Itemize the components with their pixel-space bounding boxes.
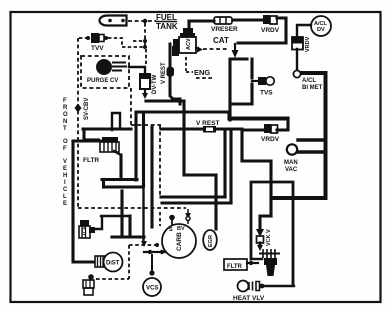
- DIST: [104, 253, 123, 272]
- svg-text:H: H: [63, 173, 67, 179]
- V REST inline on vertical: [167, 67, 175, 77]
- canister: [100, 16, 127, 26]
- svg-text:CARB: CARB: [176, 232, 183, 251]
- wire trunk mid x122: [120, 191, 123, 237]
- svg-text:V REST: V REST: [196, 120, 220, 127]
- wire A/CL BI MET riser: [272, 73, 326, 198]
- wire heat vlv horizontal: [264, 280, 294, 286]
- wire VRDV3 to A/CL DV: [297, 25, 311, 69]
- EGR: [203, 230, 217, 250]
- wire dashed vertical center to carb area: [159, 125, 161, 195]
- wire staircase lower: [104, 185, 143, 188]
- FLTR air filter: [102, 137, 118, 142]
- wire carb S feed spindle: [142, 186, 144, 240]
- TVS: [258, 77, 266, 85]
- wire MAN VAC lower line: [298, 150, 324, 153]
- svg-text:E: E: [63, 166, 67, 172]
- V RESTRICTOR inline: [203, 126, 216, 133]
- node dashed line dot: [155, 243, 159, 247]
- svg-text:N: N: [63, 119, 67, 125]
- wire DV-TW line to EGR stub: [146, 101, 216, 175]
- wire TVV right dashed: [108, 38, 122, 45]
- svg-text:O: O: [63, 112, 68, 118]
- svg-text:ACV: ACV: [186, 38, 192, 50]
- A/CL DV circle: [311, 16, 331, 36]
- wire MAN VAC top feed: [298, 138, 324, 141]
- wire dashed arrow into carb port V: [187, 209, 189, 214]
- wire dashed horizontal to carb V port: [78, 207, 186, 209]
- wire vertical x144: [142, 113, 145, 186]
- wire dashed under ENG: [196, 77, 213, 79]
- wire vertical x152: [150, 127, 153, 227]
- VRESER: [214, 17, 232, 24]
- purge CV: [96, 59, 112, 75]
- wire VRDV right to TVS block arrow: [238, 18, 286, 43]
- wire fuel vapor line ACV top to VRDV: [189, 21, 214, 29]
- wire dashed ACV to ENG: [186, 57, 193, 72]
- wire TCV riser: [95, 216, 129, 229]
- wire dashed EGR line mid: [131, 124, 161, 126]
- wire riser x231: [229, 131, 232, 203]
- heat control valve assy: [259, 253, 280, 255]
- wire dashed down to VCV: [96, 245, 129, 279]
- wire block bottom to VRDV2 loop: [231, 118, 288, 129]
- wire FLTR trunk vertical: [119, 155, 122, 178]
- wire dashed ACV arrow to CAT: [203, 48, 227, 50]
- svg-text:V REST: V REST: [161, 62, 167, 84]
- svg-text:TVS: TVS: [260, 90, 273, 97]
- carb: [162, 224, 196, 258]
- svg-text:R: R: [63, 105, 68, 111]
- wire FLTR pi stub: [112, 113, 120, 130]
- VRDV U2: [264, 124, 271, 133]
- VRDV U1: [263, 15, 270, 24]
- svg-text:HEAT VLV: HEAT VLV: [233, 295, 265, 302]
- svg-text:T: T: [63, 126, 67, 132]
- wire long dashed left vertical SV-CBV line: [77, 38, 79, 207]
- wire heat hose pi: [251, 182, 293, 284]
- DIST advance unit: [95, 256, 105, 267]
- svg-text:VRDV: VRDV: [261, 27, 280, 34]
- node dot on y252 right: [160, 250, 164, 254]
- node heat vlv dot: [260, 284, 265, 289]
- svg-text:ENG: ENG: [194, 68, 210, 77]
- wire VCK V bottom arrow: [258, 243, 261, 245]
- wire carb top horizontal lower: [162, 201, 231, 204]
- wire dashed vertical below purge box: [130, 88, 132, 125]
- wire trunk bottom horizontal y237: [112, 235, 144, 238]
- wire dashed stub left at y41: [133, 40, 143, 42]
- wire canister dashed to fuel tank junction: [128, 20, 156, 22]
- svg-text:DIST: DIST: [106, 261, 120, 267]
- wire TVV left dashed: [79, 37, 90, 39]
- wire ACV left arm down: [169, 44, 172, 92]
- node FLTR2 dot: [249, 261, 253, 265]
- wire vertical x271 down: [269, 161, 272, 216]
- node TVV right dot: [104, 36, 108, 40]
- node VCS dot: [149, 270, 154, 275]
- svg-text:C: C: [63, 187, 68, 193]
- svg-text:VCS: VCS: [146, 286, 158, 292]
- wire FLTR2 stub: [247, 262, 258, 264]
- svg-text:BV: BV: [177, 226, 185, 232]
- ACV body: [183, 28, 193, 33]
- wire bundle top horizontal y112: [136, 112, 288, 119]
- svg-text:FLTR: FLTR: [83, 157, 99, 164]
- svg-text:MAN: MAN: [284, 160, 298, 166]
- svg-text:DV: DV: [317, 27, 325, 33]
- wire TVS stem: [252, 80, 260, 82]
- wire V REST line down x242: [242, 130, 271, 161]
- VCS: [143, 278, 161, 296]
- wire carb top horizontal upper: [161, 195, 225, 198]
- svg-text:V: V: [63, 159, 67, 165]
- node dot on y252: [148, 250, 152, 254]
- VRDV U3 right: [292, 37, 303, 44]
- svg-text:TANK: TANK: [156, 22, 178, 31]
- svg-text:E: E: [63, 201, 67, 207]
- HEAT VLV: [238, 281, 249, 292]
- FLTR2 box: [224, 259, 247, 270]
- node junction dot B: [143, 45, 147, 49]
- wire dashed spark line to carb: [129, 244, 156, 246]
- svg-text:BI MET: BI MET: [302, 85, 323, 91]
- svg-text:A/CL: A/CL: [302, 78, 316, 84]
- wire V REST inline elbow bottom: [170, 92, 180, 104]
- TCV: [80, 220, 89, 226]
- svg-text:TCV: TCV: [82, 225, 88, 236]
- TVV: [91, 33, 99, 43]
- svg-text:SV-CBV: SV-CBV: [84, 98, 90, 120]
- wire distributor feed left vertical: [73, 141, 94, 262]
- wire DV-TW bottom arrow: [144, 90, 146, 94]
- svg-text:VRESER: VRESER: [211, 26, 238, 33]
- wire dashed TVV to junction: [122, 46, 143, 48]
- wire pi stub to heat valve assy: [251, 258, 262, 260]
- DV-TW: [140, 74, 150, 79]
- wire elbow to VCK V: [260, 216, 271, 228]
- wire carb bowl line y252: [144, 251, 166, 253]
- svg-text:DV-TW: DV-TW: [152, 74, 158, 94]
- wire vertical x136: [134, 113, 137, 180]
- svg-text:FLTR: FLTR: [227, 264, 243, 270]
- A/CL BI MET port circle: [293, 70, 300, 77]
- svg-text:EGR: EGR: [208, 235, 214, 247]
- node fuel tank junction: [143, 19, 147, 23]
- wire arrow into TVS block: [234, 44, 236, 51]
- purge CV dashed box: [81, 56, 129, 88]
- svg-text:L: L: [63, 194, 67, 200]
- wire left manifold branch y129: [73, 129, 131, 141]
- wire staircase left drop: [102, 180, 105, 188]
- wire dashed vertical from fuel junction: [144, 23, 146, 47]
- svg-text:VAC: VAC: [285, 167, 298, 173]
- svg-text:FUEL: FUEL: [156, 13, 177, 22]
- svg-text:VRDV: VRDV: [305, 36, 311, 52]
- wire DV-TW feed from purge: [129, 67, 145, 73]
- wire main manifold line y130: [161, 129, 288, 130]
- VCK V: [256, 229, 264, 237]
- svg-text:CAT: CAT: [213, 36, 229, 45]
- wire EGR vertical: [214, 175, 217, 229]
- wire FLTR outlet stub: [114, 151, 121, 155]
- wire riser x225: [223, 131, 226, 197]
- MAN VAC fitting: [287, 144, 297, 154]
- wire dashed down to DV-TW top: [145, 49, 147, 64]
- svg-text:TVV: TVV: [91, 45, 104, 52]
- node TVV left dot: [86, 36, 90, 40]
- wire staircase upper: [102, 178, 137, 181]
- svg-text:PURGE CV: PURGE CV: [87, 78, 118, 84]
- VCV: [88, 274, 94, 280]
- svg-text:VRDV: VRDV: [261, 136, 280, 143]
- svg-text:O: O: [63, 139, 68, 145]
- svg-text:F: F: [63, 98, 67, 104]
- svg-text:S: S: [169, 227, 173, 233]
- wire trunk lower x130: [128, 216, 131, 236]
- connector SV-CBV diamond: [75, 104, 82, 113]
- svg-text:F: F: [63, 146, 67, 152]
- wire TVS block outline: [230, 59, 252, 120]
- node junction dot A: [143, 39, 147, 43]
- wire VCS drop line: [151, 255, 153, 270]
- svg-text:VCK V: VCK V: [266, 229, 272, 246]
